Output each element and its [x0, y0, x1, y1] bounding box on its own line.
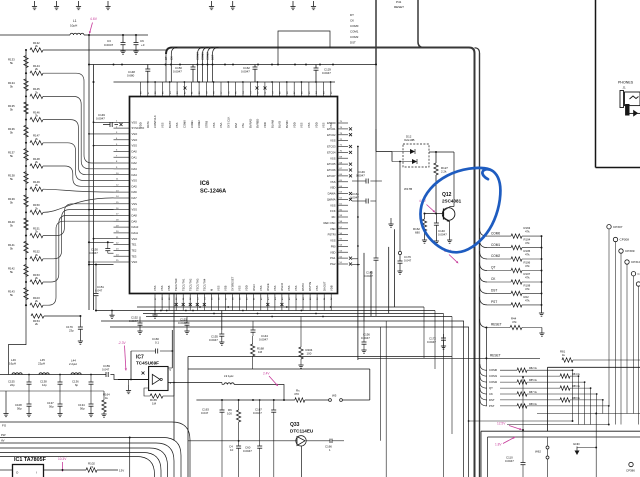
svg-text:CK: CK [170, 56, 174, 60]
node [485, 327, 487, 329]
svg-text:PG1: PG1 [330, 256, 336, 260]
svg-text:COM1: COM1 [350, 30, 359, 34]
node [192, 310, 194, 312]
box [488, 436, 640, 438]
svg-text:VSS: VSS [212, 122, 216, 128]
pin PG2 [330, 262, 352, 266]
wire [187, 357, 189, 477]
svg-text:VSS: VSS [294, 285, 298, 291]
svg-text:0.0047: 0.0047 [96, 117, 105, 121]
net PST row [480, 295, 543, 307]
svg-text:VSS: VSS [175, 122, 179, 128]
capacitor C162 [241, 65, 258, 83]
svg-text:BVRBD: BVRBD [256, 119, 260, 128]
pin VSS top [212, 82, 216, 128]
svg-text:DA5: DA5 [132, 184, 138, 188]
wire [43, 49, 166, 51]
svg-text:ETC06: ETC06 [327, 168, 336, 172]
pin TECUTH0 bottom [174, 278, 178, 310]
svg-text:1M: 1M [152, 401, 157, 405]
capacitor C150b [173, 65, 196, 83]
wire [0, 448, 168, 477]
node [154, 310, 156, 312]
pin VSS top [175, 82, 179, 128]
capacitor C108 [15, 391, 32, 417]
svg-text:OSCI: OSCI [252, 284, 256, 291]
diode D12 [392, 135, 429, 168]
ground [539, 313, 544, 316]
node [154, 81, 156, 83]
svg-text:6p: 6p [75, 383, 79, 387]
wire [43, 120, 114, 175]
xmark [264, 87, 267, 90]
svg-text:1.8V: 1.8V [495, 443, 502, 447]
svg-text:DA1: DA1 [132, 155, 138, 159]
node [257, 81, 259, 83]
net COM1 [201, 48, 209, 83]
pin VSL top [241, 82, 245, 128]
wire [43, 210, 114, 259]
node [252, 399, 254, 401]
pin COM1 top [190, 82, 194, 128]
pin 17 DA8 [114, 214, 138, 218]
net COM0 [196, 48, 204, 83]
svg-text:L9 1µH: L9 1µH [224, 374, 233, 378]
pin P90 [331, 245, 348, 249]
svg-text:VDD: VDD [139, 122, 143, 128]
pin ETC04 [327, 151, 352, 155]
svg-text:56p: 56p [80, 407, 85, 411]
svg-text:VSS: VSS [315, 285, 319, 291]
label -2.3V [118, 341, 127, 371]
node [170, 64, 172, 66]
svg-text:R85 1k: R85 1k [529, 379, 538, 382]
node [213, 81, 215, 83]
svg-text:1M: 1M [258, 350, 263, 354]
net CK row2 [480, 388, 598, 396]
bus wire [375, 0, 377, 65]
test point CP308 [613, 237, 629, 424]
pin 6 DA0 [114, 150, 138, 154]
svg-text:VSD: VSD [330, 250, 336, 254]
node [25, 211, 27, 213]
ground [230, 1, 235, 10]
pin ETC02 [327, 133, 352, 137]
svg-text:DA4: DA4 [132, 173, 138, 177]
svg-text:DT: DT [350, 13, 354, 17]
pin VDD bottom [245, 285, 249, 310]
pin VSB bottom [224, 285, 228, 310]
node [242, 310, 244, 312]
pin VSS top [161, 82, 165, 128]
svg-text:2.2k: 2.2k [441, 170, 447, 174]
svg-text:VSS: VSS [300, 122, 304, 128]
pin 13 DA6 [114, 190, 138, 194]
ground [152, 311, 157, 319]
svg-text:2.4V: 2.4V [263, 372, 270, 376]
ground [290, 1, 295, 10]
node [332, 64, 334, 66]
pin BLAD top [278, 82, 282, 128]
svg-text:ETC04: ETC04 [327, 151, 336, 155]
wire [130, 351, 132, 380]
svg-text:0.0047: 0.0047 [241, 70, 250, 74]
svg-text:2SC4081: 2SC4081 [442, 199, 462, 204]
wire [177, 382, 222, 384]
label 4 PV [419, 199, 435, 213]
node [25, 304, 27, 306]
svg-text:FG: FG [2, 424, 7, 428]
connector W5 [329, 394, 370, 402]
svg-text:TECUTH0: TECUTH0 [174, 278, 178, 291]
pin DIVI top [234, 82, 238, 128]
pin 18 DA9 [114, 219, 138, 223]
net DST row2 [480, 394, 604, 402]
node [468, 420, 470, 422]
wire [43, 166, 114, 186]
resistor R135 [8, 102, 28, 114]
svg-text:CP386: CP386 [626, 469, 635, 473]
svg-text:0.0047: 0.0047 [438, 233, 447, 237]
pin TECUTH3 bottom [195, 278, 199, 310]
pin 15 VSS [114, 202, 138, 206]
node [322, 316, 324, 318]
node [160, 310, 162, 312]
capacitor C176 [397, 255, 411, 274]
pin DAWA [328, 192, 352, 196]
svg-text:47k: 47k [525, 298, 530, 302]
test point CP311 [631, 272, 640, 414]
pin 19 DA10 [114, 225, 139, 229]
pin COM2 top [197, 82, 201, 128]
ground [32, 1, 37, 10]
wire [43, 204, 114, 236]
annotation blue loop around Q12 [420, 168, 500, 252]
node [238, 399, 240, 401]
node [25, 281, 27, 283]
resistor R146 [30, 110, 43, 121]
node [25, 95, 27, 97]
wire [352, 264, 360, 266]
wire [144, 388, 150, 396]
node [435, 212, 437, 214]
svg-text:COM0: COM0 [183, 120, 187, 128]
IC IC6 [130, 97, 338, 294]
label 1.8V [495, 437, 516, 447]
node [202, 64, 204, 66]
capacitor C138 [40, 374, 63, 391]
pin OSCE bottom [266, 283, 270, 310]
svg-text:COM1: COM1 [190, 120, 194, 128]
node [197, 64, 199, 66]
node [271, 316, 273, 318]
capacitor C6 [133, 34, 144, 54]
svg-text:0.1: 0.1 [155, 341, 159, 345]
wire [429, 151, 454, 153]
svg-text:10.3V: 10.3V [58, 457, 67, 461]
svg-text:ETC02: ETC02 [327, 133, 336, 137]
pin M bottom [210, 288, 214, 311]
svg-text:VSO: VSO [132, 132, 138, 136]
inductor L9 [222, 374, 278, 385]
wire [0, 34, 70, 36]
svg-text:TE3: TE3 [132, 254, 137, 258]
node [88, 34, 90, 36]
inductor L1 [70, 19, 84, 35]
ground [76, 1, 81, 10]
wire [352, 258, 358, 260]
wire [278, 31, 330, 65]
node [93, 121, 95, 123]
node [93, 238, 95, 240]
svg-text:23p: 23p [69, 329, 74, 333]
pin 12 DA5 [114, 184, 138, 188]
svg-text:TE1: TE1 [132, 243, 137, 247]
node [25, 258, 27, 260]
resistor R151 [30, 226, 43, 237]
wire [89, 209, 114, 211]
node [198, 81, 200, 83]
wire [140, 310, 435, 312]
test point CP309 [619, 249, 635, 425]
pin 21 VSO [114, 237, 138, 241]
svg-text:ETC03: ETC03 [327, 145, 336, 149]
pin VSS [330, 139, 348, 143]
node [25, 165, 27, 167]
bus wire [166, 48, 475, 477]
svg-text:DA2: DA2 [132, 161, 138, 165]
svg-text:0.047: 0.047 [404, 259, 412, 263]
ground [54, 1, 59, 10]
svg-text:DST: DST [350, 41, 356, 45]
svg-text:R89 1k: R89 1k [529, 403, 538, 406]
node [199, 306, 201, 308]
svg-text:STRB: STRB [205, 121, 209, 128]
node [357, 216, 359, 218]
pin REF OSC [324, 221, 348, 225]
ground [209, 1, 214, 10]
svg-text:VSL: VSL [241, 122, 245, 128]
inductor L44 [69, 359, 81, 375]
wire [94, 238, 114, 240]
svg-text:0.0047: 0.0047 [505, 459, 514, 463]
svg-text:DATA: DATA [146, 121, 150, 128]
net GND [573, 442, 597, 455]
wire [487, 437, 489, 477]
resistor R138 [8, 172, 28, 184]
resistor R150 [30, 203, 43, 214]
capacitor C163 [201, 400, 225, 477]
pin 9 DA3 [114, 167, 138, 171]
resistor R134 [8, 79, 28, 91]
test point CP312 [636, 282, 640, 425]
pin SYS CLK top [226, 82, 230, 128]
svg-text:VSS: VSS [330, 139, 336, 143]
pin VSS top [300, 82, 304, 128]
pin 1 VSS [114, 120, 138, 124]
resistor R6 [227, 400, 241, 443]
svg-text:REF OSC: REF OSC [324, 221, 336, 225]
connector J1 PHONES [618, 81, 640, 117]
svg-text:CP310: CP310 [631, 260, 640, 264]
test point CP386 [626, 462, 635, 472]
svg-text:DAWA: DAWA [328, 192, 336, 196]
net DT [164, 48, 172, 83]
svg-text:2.2µH: 2.2µH [69, 362, 77, 366]
node [171, 350, 173, 352]
capacitor C110 [505, 430, 526, 477]
net COM0 row [480, 226, 543, 238]
capacitor C148 [127, 65, 150, 83]
wire [43, 96, 114, 168]
ground [3, 391, 8, 417]
inductor L46 [9, 358, 22, 375]
capacitor C146 [352, 170, 382, 184]
node [522, 429, 524, 431]
pin 4 VSO [114, 138, 138, 142]
svg-text:QT: QT [489, 386, 493, 390]
svg-text:VSS: VSS [132, 120, 138, 124]
label 10.3V [58, 457, 67, 472]
pin VSS bottom [287, 285, 291, 310]
pin VSS bottom [259, 285, 263, 310]
svg-text:16µH: 16µH [9, 362, 16, 366]
capacitor C4 [229, 443, 241, 477]
svg-text:100: 100 [307, 352, 312, 356]
svg-text:QWMA: QWMA [327, 198, 336, 202]
transistor Q12 [425, 152, 455, 243]
svg-text:10µH: 10µH [70, 24, 77, 28]
wire [578, 376, 580, 424]
node [227, 306, 229, 308]
svg-text:0.0047: 0.0047 [356, 174, 365, 178]
node [357, 245, 359, 247]
pin 24 TE3 [114, 254, 137, 258]
inductor L45 [38, 358, 49, 375]
capacitor C160 [131, 337, 172, 354]
net QT row [480, 261, 543, 273]
wire [394, 229, 396, 307]
wire [43, 221, 114, 305]
wire [435, 175, 437, 214]
wire [608, 406, 610, 425]
node [357, 146, 359, 148]
node [357, 264, 359, 266]
svg-text:COM2: COM2 [197, 120, 201, 128]
svg-text:VSB: VSB [167, 285, 171, 291]
node [301, 310, 303, 312]
net COM0 row2 [480, 364, 573, 372]
pin STRB top [205, 82, 209, 128]
pin 8 DA2 [114, 161, 138, 165]
ground [109, 311, 114, 319]
pin QWMA [327, 198, 352, 202]
bus wire [475, 48, 480, 53]
resistor R154 [26, 306, 81, 326]
wire [0, 390, 104, 392]
wire [423, 307, 425, 358]
pin VSS bottom [160, 285, 164, 310]
node [315, 81, 317, 83]
wire [43, 215, 114, 282]
pin VSS bottom [294, 285, 298, 310]
wire [584, 382, 586, 424]
node [88, 133, 90, 135]
node [572, 420, 574, 422]
svg-text:47k: 47k [525, 230, 530, 234]
svg-text:COM2: COM2 [491, 254, 500, 258]
node [169, 81, 171, 83]
svg-text:12p: 12p [42, 383, 47, 387]
pin 14 DA7 [114, 196, 138, 200]
pin BLAMI top [270, 82, 274, 128]
resistor R132 [30, 41, 43, 52]
svg-text:GND: GND [573, 442, 581, 446]
pin VSD [330, 186, 348, 190]
svg-text:DST: DST [211, 54, 215, 60]
svg-text:0.047: 0.047 [201, 411, 209, 415]
wire [479, 53, 481, 477]
wire [96, 310, 140, 312]
wire [0, 443, 174, 477]
node [179, 64, 181, 66]
wire [469, 420, 573, 422]
wire [89, 261, 114, 263]
node [173, 382, 175, 384]
svg-text:DSTYN: DSTYN [308, 282, 312, 291]
svg-text:COM2: COM2 [350, 35, 359, 39]
capacitor C156 [361, 321, 370, 353]
net RESET [358, 354, 540, 360]
pin VSS top [307, 82, 311, 128]
node [286, 81, 288, 83]
node [271, 64, 273, 66]
node [221, 399, 223, 401]
node [435, 151, 437, 153]
pin RC [332, 215, 348, 219]
label 2.4V [263, 372, 278, 387]
pin PSTRI [328, 233, 348, 237]
node [62, 469, 64, 471]
node [166, 310, 168, 312]
node [294, 64, 296, 66]
node [242, 81, 244, 83]
resistor R152 [30, 250, 43, 261]
pin DSTYN bottom [308, 282, 312, 311]
svg-text:DA7: DA7 [132, 196, 138, 200]
pin VSS bottom [273, 285, 277, 310]
svg-text:RSYN: RSYN [301, 283, 305, 291]
svg-text:470: 470 [294, 392, 299, 396]
pin ETC05 [327, 162, 352, 166]
node [227, 81, 229, 83]
pin VDB bottom [329, 285, 333, 310]
wire [522, 377, 524, 430]
svg-text:W62: W62 [535, 450, 541, 454]
resistor R136 [8, 125, 28, 137]
wire [385, 321, 387, 477]
capacitor C145 [364, 129, 379, 316]
resistor R127 [434, 163, 449, 175]
resistor R103 [30, 296, 43, 307]
svg-text:COM1: COM1 [201, 52, 205, 60]
svg-text:VSD: VSD [330, 227, 336, 231]
pin 22 TE1 [114, 243, 137, 247]
wire [537, 413, 640, 415]
wire [168, 367, 172, 369]
node [286, 306, 288, 308]
wire [129, 438, 131, 477]
